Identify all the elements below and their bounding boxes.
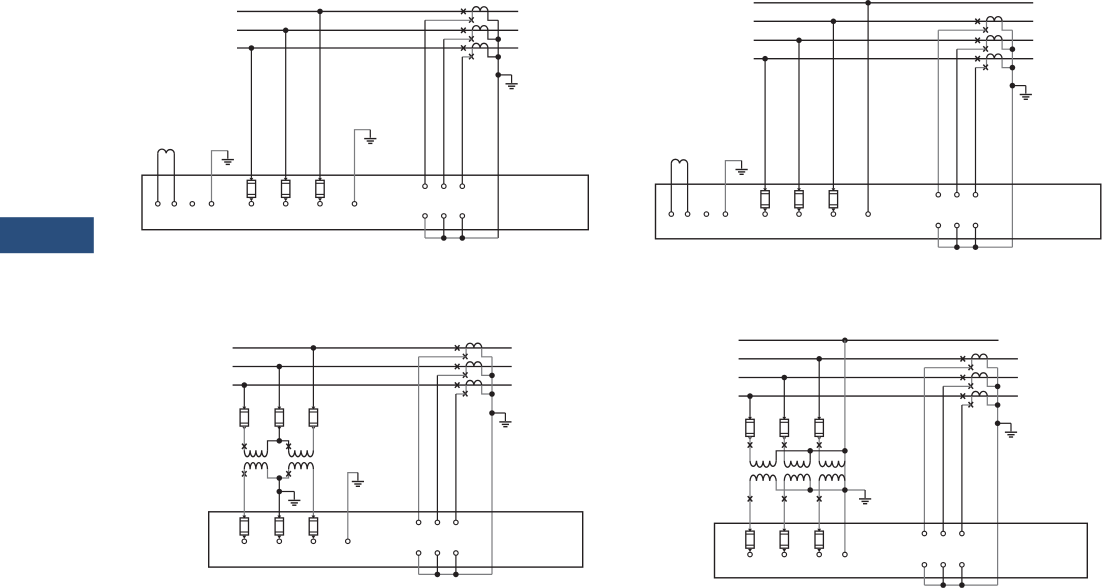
wire CT ground stub (TR) <box>1012 85 1025 87</box>
ground CT secondary ground (BL) <box>499 413 511 427</box>
wire CT2 secondary drop (TL) <box>443 39 445 184</box>
wire CT1 secondary drop (TR) <box>937 30 939 192</box>
transformer CT3 (BR) <box>961 391 988 407</box>
ground CT secondary ground (TR) <box>1020 86 1032 100</box>
ground CT secondary ground (TL) <box>506 75 518 89</box>
fuse PT primary F2 (BL) <box>275 407 283 430</box>
ground VN ground (BL) <box>352 473 364 487</box>
node L1 tap junction (BL) <box>311 345 317 351</box>
wire CT ground stub (TL) <box>498 74 511 76</box>
terminal VN (TL) <box>352 202 357 207</box>
terminal I2- (TR) <box>955 223 960 228</box>
wire CT common bus (BL) <box>491 357 493 575</box>
polarity X PT2 secondary (BL) <box>286 471 291 476</box>
terminal I3+ (BL) <box>454 520 459 525</box>
wire phase line L1 (BR) <box>739 339 999 341</box>
sidebar tab <box>0 217 94 253</box>
transformer PT2 primary coil (BL) <box>289 450 314 456</box>
wire CT3 secondary drop (TR) <box>975 68 977 193</box>
wire PT secondary common drop (BL) <box>278 478 280 516</box>
node L2 tap junction (TR) <box>796 38 802 44</box>
wire CT ground stub (BR) <box>998 422 1011 424</box>
wire CT3 secondary drop (BR) <box>961 405 963 531</box>
terminal I2+ (BR) <box>941 531 946 536</box>
fuse voltage F3 (TR) <box>829 188 837 216</box>
wire current return bus (TL) <box>425 237 498 239</box>
node CT2 return junction (BL) <box>489 373 495 379</box>
wire CT2 secondary return (BL) <box>482 367 492 376</box>
transformer PT1 primary coil (BR) <box>750 461 776 467</box>
wire phase line L3 (BL) <box>233 384 512 386</box>
wire CT3 secondary lead to I3 (BL) <box>456 393 466 395</box>
node PT2 primary common junction (BR) <box>807 448 813 454</box>
transformer CT1 (BR) <box>961 354 988 370</box>
meter box (BL) <box>209 512 583 567</box>
node I2- bus junction (TL) <box>441 235 447 241</box>
wire phase line L2 (TR) <box>754 20 1033 22</box>
fuse voltage F3 (TL) <box>316 178 324 206</box>
terminal I1- (BR) <box>922 563 927 568</box>
wire I2- return drop (BL) <box>436 555 438 574</box>
wire CT3 secondary lead to I3 (TR) <box>976 67 986 69</box>
node I2- bus junction (TR) <box>954 244 960 250</box>
transformer PT3 primary coil (BR) <box>819 461 845 467</box>
wire L1 tap (TL) <box>319 11 321 178</box>
wire CT1 secondary drop (BL) <box>418 357 420 520</box>
fuse PT primary F2 (BR) <box>780 417 788 440</box>
node L1 tap junction (TL) <box>317 9 323 15</box>
terminal I3- (TL) <box>460 214 465 219</box>
fuse voltage F1 (TL) <box>247 178 255 206</box>
wire CT common bus (TR) <box>1011 30 1013 247</box>
wire PT2 primary feed (BL) <box>278 426 280 441</box>
wire CT2 secondary lead to I2 (BL) <box>437 374 465 376</box>
node L2 tap junction (BR) <box>782 375 788 381</box>
node CT bus ground junction (TR) <box>1010 83 1016 89</box>
wire PT2 secondary lead (BR) <box>783 481 785 529</box>
wire current return bus (TR) <box>938 246 1012 248</box>
node CT2 return junction (TL) <box>495 36 501 42</box>
wire phase line L1 (TR) <box>754 2 1033 4</box>
polarity X PT1 primary (BR) <box>748 442 753 447</box>
wire CT1 secondary return (BR) <box>987 359 997 368</box>
terminal I3+ (BR) <box>960 531 965 536</box>
terminal L (TL) <box>156 202 161 207</box>
terminal I1+ (TL) <box>423 184 428 189</box>
wire CT3 secondary lead to I3 (BR) <box>962 404 971 406</box>
wire PT secondary common (BR) <box>776 481 865 490</box>
wire I2- return drop (TL) <box>443 218 445 238</box>
transformer PT2 secondary coil (BR) <box>784 474 810 481</box>
node CT bus ground junction (BR) <box>995 421 1001 427</box>
fuse voltage F2 (BL) <box>275 516 283 544</box>
wire L2 tap (BR) <box>783 378 785 417</box>
meter box (BR) <box>715 523 1088 578</box>
wire I1- return drop (TL) <box>424 218 426 238</box>
transformer CT1 (BL) <box>455 343 482 359</box>
wire CT3 secondary drop (TL) <box>461 57 463 184</box>
node I2- bus junction (BL) <box>435 572 441 578</box>
coil control power input (TL) <box>158 149 175 201</box>
wire phase line L3 (BR) <box>739 377 1018 379</box>
node PT secondary neutral junction (BR) <box>842 487 848 493</box>
terminal I2+ (BL) <box>435 520 440 525</box>
terminal I1- (BL) <box>416 551 421 556</box>
fuse voltage F1 (TR) <box>761 188 769 216</box>
transformer PT3 secondary coil (BR) <box>819 474 845 481</box>
wire CT2 secondary return (TR) <box>1002 40 1012 49</box>
node CT bus ground junction (BL) <box>489 410 495 416</box>
diagram: 3-wire system, 2 PTs open-delta, 3 CTs (bottom-left) <box>209 343 583 577</box>
wire phase line L2 (BL) <box>233 366 512 368</box>
wire phase line L2 (BR) <box>739 358 1018 360</box>
wire CT1 secondary return (TR) <box>1002 21 1012 30</box>
terminal VN (TR) <box>866 212 871 217</box>
wire L1 tap (BL) <box>312 348 314 407</box>
wire VN ground hook (TL) <box>355 130 371 202</box>
node L3 tap junction (TL) <box>249 45 255 51</box>
wire CT2 secondary drop (BR) <box>942 386 944 531</box>
terminal I3- (BR) <box>960 563 965 568</box>
node CT bus ground junction (TL) <box>495 72 501 78</box>
transformer PT2 primary coil (BR) <box>784 461 810 467</box>
node I3- bus junction (BR) <box>959 582 965 588</box>
wire PT1 secondary lead (BR) <box>749 481 751 529</box>
node CT2 return junction (BR) <box>995 384 1001 390</box>
polarity X PT1 secondary (BL) <box>242 471 247 476</box>
wire PT2 primary riser (BR) <box>809 451 811 461</box>
wire PT3 primary lead (BR) <box>818 436 820 460</box>
wire PT2 secondary lead to V3 (BL) <box>312 469 314 515</box>
fuse PT primary F1 (BL) <box>240 407 248 430</box>
node L3 tap junction (BR) <box>747 393 753 399</box>
terminal unused (TL) <box>190 202 195 207</box>
polarity X PT2 primary (BR) <box>782 442 787 447</box>
polarity X PT2 primary (BL) <box>286 444 291 449</box>
terminal G (TR) <box>723 212 728 217</box>
wire phase line L1 (TL) <box>237 10 518 12</box>
ground VN ground (TL) <box>364 130 376 144</box>
fuse PT primary F3 (BR) <box>815 417 823 440</box>
wire CT2 secondary return (TL) <box>488 30 498 39</box>
wire CT2 secondary return (BR) <box>987 378 997 387</box>
wire L3 tap (BR) <box>749 396 751 417</box>
fuse voltage F2 (BR) <box>780 529 788 557</box>
wire CT2 secondary lead to I2 (TL) <box>444 38 472 40</box>
wire I1- return drop (BR) <box>923 567 925 585</box>
polarity X PT1 secondary (BR) <box>748 496 753 501</box>
wire CT3 secondary return (BR) <box>987 396 997 405</box>
terminal I1- (TR) <box>936 223 941 228</box>
polarity X PT2 secondary (BR) <box>782 496 787 501</box>
wire CT3 secondary return (TR) <box>1002 59 1012 68</box>
wire phase line L3 (TR) <box>754 39 1033 41</box>
node PT primary neutral junction (BR) <box>842 448 848 454</box>
meter box (TR) <box>656 184 1101 239</box>
wire L2 tap (TR) <box>798 40 800 188</box>
ground PT secondary ground (BR) <box>859 490 871 504</box>
terminal N (TL) <box>172 202 177 207</box>
wire PT primary common (BR) <box>776 451 845 461</box>
node L1 tap junction (TR) <box>831 19 837 25</box>
wire current return bus (BR) <box>924 584 997 586</box>
terminal unused (TR) <box>704 212 709 217</box>
terminal G (TL) <box>209 202 214 207</box>
node L3 tap junction (BL) <box>242 382 248 388</box>
wire neutral tap (BR) <box>844 340 846 552</box>
fuse PT primary F1 (BR) <box>746 417 754 440</box>
terminal I3+ (TR) <box>973 192 978 197</box>
node L3 tap junction (TR) <box>762 56 768 62</box>
wire L3 tap (TL) <box>250 48 252 178</box>
wire ground hook (TL) <box>212 151 228 202</box>
node PT primary common junction (BL) <box>277 438 283 444</box>
wire I2- return drop (TR) <box>956 228 958 248</box>
wire CT3 secondary drop (BL) <box>455 394 457 520</box>
terminal I2- (TL) <box>442 214 447 219</box>
wire CT2 secondary lead to I2 (TR) <box>957 48 986 50</box>
wire CT3 secondary return (TL) <box>488 48 498 57</box>
fuse voltage F3 (BR) <box>815 529 823 557</box>
transformer CT2 (TR) <box>975 36 1002 52</box>
transformer CT2 (TL) <box>461 26 488 42</box>
ground control power ground (TR) <box>736 161 748 175</box>
wire PT1 secondary lead to V1 (BL) <box>243 469 245 515</box>
wire I2- return drop (BR) <box>942 567 944 585</box>
wire PT2 primary to L1 fuse (BL) <box>312 426 314 450</box>
node CT3 return junction (BL) <box>489 391 495 397</box>
wire phase line L3 (TL) <box>237 47 518 49</box>
wire PT2 primary lead (BR) <box>783 436 785 460</box>
wire CT1 secondary lead to I1 (TL) <box>425 19 472 21</box>
wire L1 tap (BR) <box>818 359 820 417</box>
wire phase line L4 (TR) <box>754 58 1033 60</box>
terminal N (TR) <box>685 212 690 217</box>
wire CT ground stub (BL) <box>492 412 505 414</box>
node PT secondary ground junction (BL) <box>277 489 283 495</box>
wire CT2 secondary lead to I2 (BR) <box>943 385 971 387</box>
wire I3- return drop (TL) <box>461 218 463 238</box>
terminal VN (BR) <box>843 552 848 557</box>
wire I1- return drop (BL) <box>418 555 420 574</box>
wire CT common bus (TL) <box>497 20 499 238</box>
node L1 tap junction (BR) <box>816 356 822 362</box>
transformer CT2 (BL) <box>455 362 482 378</box>
transformer PT1 primary coil (BL) <box>244 450 267 456</box>
wire CT1 secondary lead to I1 (BL) <box>419 356 466 358</box>
wire CT1 secondary lead to I1 (TR) <box>938 29 986 31</box>
node I2- bus junction (BR) <box>940 582 946 588</box>
node L2 tap junction (TL) <box>283 28 289 34</box>
transformer CT3 (TL) <box>461 43 488 59</box>
wire CT3 secondary lead to I3 (TL) <box>462 56 471 58</box>
wire I3- return drop (TR) <box>975 228 977 248</box>
terminal I1+ (BL) <box>416 520 421 525</box>
wire CT1 secondary drop (BR) <box>923 368 925 532</box>
polarity X PT1 primary (BL) <box>242 444 247 449</box>
wire phase line L2 (TL) <box>237 29 518 31</box>
node I3- bus junction (TL) <box>460 235 466 241</box>
wire PT2 secondary riser (BR) <box>809 481 811 490</box>
terminal I3+ (TL) <box>460 184 465 189</box>
node neutral tap junction (TR) <box>865 0 871 6</box>
node PT2 secondary common junction (BR) <box>807 487 813 493</box>
wire PT1 primary lead (BR) <box>749 436 751 460</box>
transformer CT2 (BR) <box>961 373 988 389</box>
fuse voltage F3 (BL) <box>309 516 317 544</box>
transformer CT1 (TR) <box>975 17 1002 33</box>
terminal I1- (TL) <box>423 214 428 219</box>
terminal I2+ (TL) <box>442 184 447 189</box>
fuse voltage F2 (TL) <box>282 178 290 206</box>
terminal I1+ (TR) <box>936 192 941 197</box>
transformer CT3 (TR) <box>975 54 1002 70</box>
wire CT1 secondary lead to I1 (BR) <box>924 367 971 369</box>
fuse PT primary F3 (BL) <box>309 407 317 430</box>
node CT3 return junction (TL) <box>495 54 501 60</box>
diagram: 3-wire system, 3 CTs, direct voltage (top-left) <box>142 7 588 241</box>
ground CT secondary ground (BR) <box>1005 423 1017 437</box>
transformer PT2 secondary coil (BL) <box>289 463 314 470</box>
wire L3 tap (BL) <box>243 385 245 407</box>
wire PT3 secondary lead (BR) <box>818 481 820 529</box>
wire PT3 secondary riser (BR) <box>844 481 846 490</box>
terminal L (TR) <box>669 212 674 217</box>
wire L2 tap (TL) <box>285 30 287 178</box>
polarity X PT3 secondary (BR) <box>817 496 822 501</box>
wire PT primary common (BL) <box>268 441 289 451</box>
wire CT2 secondary drop (BL) <box>436 375 438 520</box>
fuse voltage F1 (BR) <box>746 529 754 557</box>
fuse voltage F1 (BL) <box>240 516 248 544</box>
wire PT secondary ground stub (BL) <box>279 491 294 493</box>
terminal I2- (BL) <box>435 551 440 556</box>
node CT3 return junction (BR) <box>995 402 1001 408</box>
wire PT secondary common (BL) <box>268 469 289 478</box>
terminal I3- (BL) <box>454 551 459 556</box>
node I3- bus junction (BL) <box>453 572 459 578</box>
ground control power ground (TL) <box>222 151 234 165</box>
wire L1 tap (TR) <box>832 21 834 188</box>
wire current return bus (BL) <box>419 573 492 575</box>
node CT3 return junction (TR) <box>1010 65 1016 71</box>
coil control power input (TR) <box>671 159 687 212</box>
transformer PT1 secondary coil (BL) <box>244 463 267 470</box>
wire CT common bus (BR) <box>997 368 999 585</box>
wire PT1 primary lead (BL) <box>243 426 245 450</box>
wire CT1 secondary return (TL) <box>488 11 498 20</box>
wire CT2 secondary drop (TR) <box>956 49 958 192</box>
meter box (TL) <box>142 175 588 230</box>
wire CT1 secondary drop (TL) <box>424 20 426 184</box>
wire neutral tap (TR) <box>867 3 869 212</box>
wire ground hook (TR) <box>725 161 741 212</box>
transformer PT1 secondary coil (BR) <box>750 474 776 481</box>
node CT2 return junction (TR) <box>1010 46 1016 52</box>
terminal I2- (BR) <box>941 563 946 568</box>
polarity X PT3 primary (BR) <box>817 442 822 447</box>
node neutral tap junction (BR) <box>842 338 848 344</box>
fuse voltage F2 (TR) <box>795 188 803 216</box>
diagram: 4-wire wye, 3 CTs, direct voltage (top-right) <box>656 0 1101 250</box>
transformer CT1 (TL) <box>461 7 488 23</box>
wire phase line L4 (BR) <box>739 395 1018 397</box>
terminal I2+ (TR) <box>955 192 960 197</box>
terminal VN (BL) <box>346 539 351 544</box>
wire phase line L1 (BL) <box>233 347 512 349</box>
terminal I3- (TR) <box>973 223 978 228</box>
node PT secondary common junction (BL) <box>277 475 283 481</box>
wire I3- return drop (BL) <box>455 555 457 574</box>
diagram: 4-wire wye, 3 PTs wye-wye, 3 CTs (bottom-right) <box>715 338 1088 588</box>
wire I3- return drop (BR) <box>961 567 963 585</box>
transformer CT3 (BL) <box>455 380 482 396</box>
ground PT secondary ground (BL) <box>288 492 300 506</box>
wire I1- return drop (TR) <box>937 228 939 248</box>
wire CT3 secondary return (BL) <box>482 385 492 394</box>
wire CT1 secondary return (BL) <box>482 348 492 357</box>
node L2 tap junction (BL) <box>277 364 283 370</box>
terminal I1+ (BR) <box>922 531 927 536</box>
wire L3 tap (TR) <box>764 59 766 189</box>
wire VN ground hook (BL) <box>348 473 358 539</box>
node I3- bus junction (TR) <box>973 244 979 250</box>
wire L2 tap (BL) <box>278 367 280 407</box>
